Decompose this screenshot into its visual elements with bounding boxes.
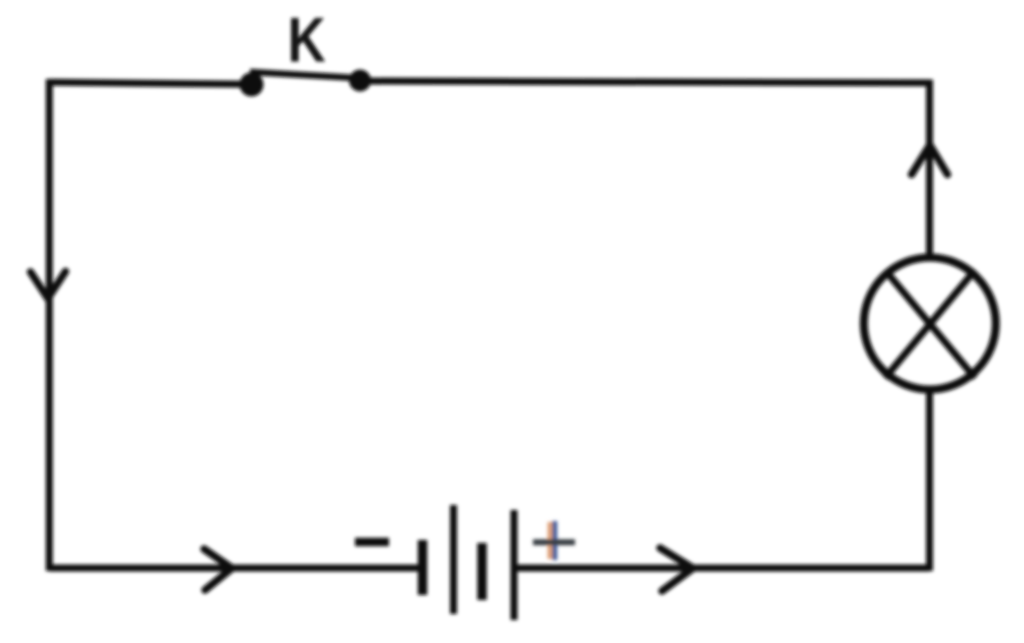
wire top-left segment [49, 82, 251, 84]
current arrow bottom-right (right) [660, 548, 693, 591]
plus polarity label vertical orange half [548, 522, 553, 559]
switch label K [287, 5, 325, 75]
current arrow right (up) [912, 145, 948, 175]
switch contact dot right [349, 70, 371, 92]
wire right side lower [926, 392, 933, 571]
lamp cross stroke 1 [885, 270, 975, 378]
current arrow left (down) [31, 272, 66, 299]
battery cell2 long plate [511, 510, 518, 620]
battery cell1 long plate [450, 505, 457, 614]
minus polarity label [355, 538, 389, 547]
wire top-right segment [360, 81, 930, 83]
current arrow bottom-left (right) [204, 549, 232, 590]
battery cell1 short plate [418, 540, 428, 595]
wire left side [46, 79, 53, 571]
wire bottom-right segment [517, 565, 930, 572]
plus polarity label horizontal stroke [533, 539, 575, 545]
wire bottom-left segment [49, 565, 419, 572]
svg-text:K: K [287, 5, 325, 75]
lamp cross stroke 2 [885, 270, 975, 378]
switch K blade [250, 72, 357, 78]
switch contact dot left [240, 73, 264, 97]
battery cell2 short plate [477, 543, 487, 600]
wire right side upper [926, 80, 933, 257]
lamp L circle [864, 258, 996, 390]
plus polarity label vertical blue half [552, 521, 557, 560]
